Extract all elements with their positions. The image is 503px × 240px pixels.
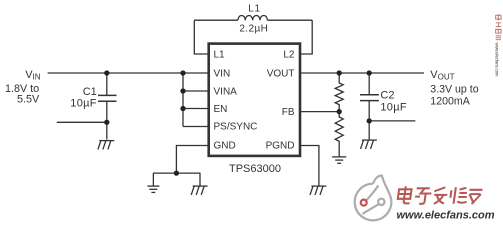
wire PGND to ground: [300, 146, 319, 187]
svg-text:VIN: VIN: [214, 69, 231, 80]
resistor R1 (upper divider): [335, 73, 343, 112]
IC U1 TPS63000 body: [209, 44, 300, 156]
node VIN/rail junction: [180, 70, 185, 75]
wire C2 bottom stub right: [369, 120, 415, 122]
node VINA junction: [180, 88, 185, 93]
ground (chassis) below C1: [98, 141, 114, 150]
svg-text:VIN: VIN: [25, 69, 41, 81]
svg-text:5.5V: 5.5V: [17, 94, 40, 106]
ground (earth) below divider: [332, 157, 346, 163]
wire L1 pin stub: [194, 20, 209, 54]
wire EN stub: [183, 108, 210, 110]
resistor R2 (lower divider): [335, 112, 343, 157]
wire C1 bottom stub left: [57, 121, 107, 123]
ground (chassis) right of GND node: [191, 186, 207, 195]
capacitor C2 top lead: [368, 73, 370, 94]
svg-text:VOUT: VOUT: [430, 69, 454, 81]
svg-text:10µF: 10µF: [70, 98, 97, 110]
node junction dots: [104, 70, 372, 175]
svg-text:www.elecfans.com: www.elecfans.com: [397, 210, 495, 222]
wire PS/SYNC stub: [183, 126, 210, 128]
node C1 bottom junction: [104, 120, 109, 125]
node FB divider junction: [337, 109, 342, 114]
capacitor C1 bottom lead: [106, 102, 108, 140]
svg-text:VINA: VINA: [214, 87, 238, 98]
svg-text:PS/SYNC: PS/SYNC: [214, 121, 258, 132]
ground (chassis) below C2: [361, 140, 377, 149]
node C2 bottom junction: [367, 118, 372, 123]
node GND junction: [174, 170, 179, 175]
svg-text:VOUT: VOUT: [267, 69, 295, 80]
svg-text:L2: L2: [283, 50, 295, 61]
svg-text:FB: FB: [282, 107, 295, 118]
svg-text:C2: C2: [380, 90, 394, 102]
watermark logo swoosh: [355, 176, 392, 221]
svg-text:L1: L1: [214, 50, 226, 61]
ground (chassis) below PGND: [310, 186, 326, 195]
wire VOUT rail horizontal: [300, 72, 425, 74]
svg-text:1200mA: 1200mA: [430, 96, 470, 108]
wire GND pin to ground node: [176, 146, 209, 174]
node EN junction: [180, 106, 185, 111]
inductor L1 coil: [238, 15, 268, 20]
svg-text:C1: C1: [83, 86, 97, 98]
watermark vertical chinese (right edge): [496, 14, 501, 40]
svg-text:PGND: PGND: [266, 141, 295, 152]
node C1/VIN junction: [104, 70, 109, 75]
wire top loop right horizontal: [267, 19, 312, 21]
node R1 top junction: [337, 70, 342, 75]
wire to earth ground left: [152, 173, 154, 186]
node C2 top junction: [367, 70, 372, 75]
wire top loop left horizontal: [194, 19, 238, 21]
capacitor C1 plates: [98, 94, 117, 96]
wire left bias rail vertical: [182, 73, 184, 127]
svg-text:GND: GND: [214, 141, 236, 152]
capacitor C2 bottom lead: [368, 101, 370, 140]
svg-text:10µF: 10µF: [380, 101, 407, 113]
wire to chassis ground right: [199, 173, 201, 186]
svg-text:www.elecfans.com: www.elecfans.com: [494, 43, 499, 77]
wire FB stub: [300, 111, 340, 113]
wire ground node horizontal: [153, 172, 200, 174]
capacitor C1 top lead: [106, 73, 108, 95]
wire VINA stub: [183, 90, 210, 92]
svg-text:3.3V up to: 3.3V up to: [430, 84, 478, 96]
svg-text:TPS63000: TPS63000: [229, 163, 281, 175]
svg-text:L1: L1: [248, 4, 261, 15]
svg-text:2.2µH: 2.2µH: [239, 24, 268, 35]
svg-text:EN: EN: [214, 104, 228, 115]
watermark chinese characters (drawn strokes): [397, 186, 483, 204]
wire VIN rail horizontal: [48, 72, 210, 74]
capacitor C2 plates: [360, 94, 379, 96]
wire L2 pin stub: [300, 20, 313, 54]
ground (earth) left of GND node: [147, 186, 159, 192]
